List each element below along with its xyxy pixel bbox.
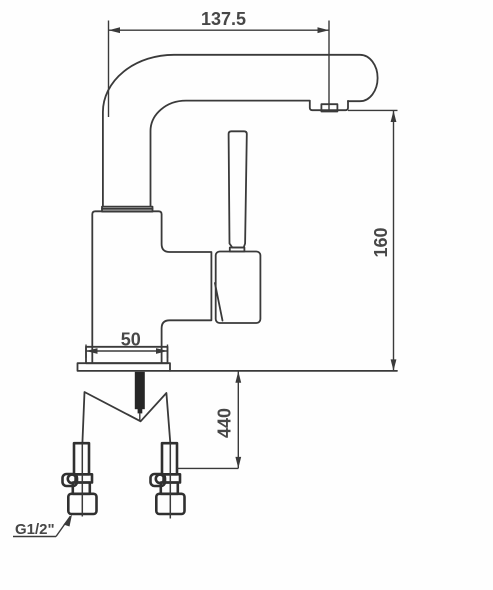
svg-text:440: 440 <box>215 408 235 438</box>
svg-text:137.5: 137.5 <box>201 9 246 29</box>
svg-text:G1/2": G1/2" <box>15 521 55 538</box>
svg-text:50: 50 <box>121 329 141 349</box>
svg-text:160: 160 <box>371 227 391 257</box>
